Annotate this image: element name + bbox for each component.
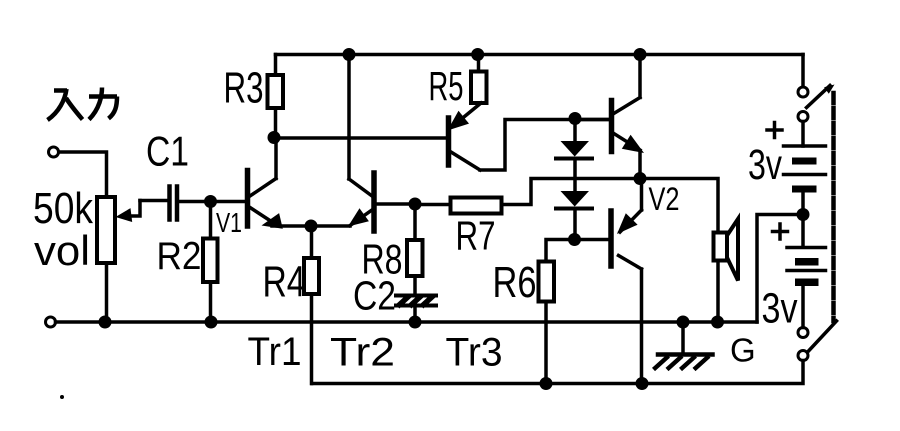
resistor R4 body	[304, 258, 319, 294]
wire C1 right to node	[177, 200, 211, 204]
wire R3 node to Tr4 base	[274, 136, 447, 140]
capacitor C2 top plate	[396, 294, 436, 298]
wire battery1 to mid node	[801, 193, 805, 215]
resistor R8 body	[407, 240, 423, 276]
svg-text:R5: R5	[429, 63, 464, 109]
resistor R5 stems	[477, 55, 481, 72]
resistor R7 body	[451, 198, 502, 214]
transistor Tr3 emitter arrow	[448, 111, 470, 131]
wire node down to R2	[209, 202, 213, 239]
svg-text:Tr1: Tr1	[248, 330, 302, 374]
node: C1 / R2 / Tr1 base	[204, 195, 217, 208]
node: mid bus / R2	[205, 316, 218, 329]
transistor Tr2 emitter arrow	[348, 208, 369, 226]
switch pole 1 blade	[807, 86, 831, 108]
transistor V1 emitter	[613, 133, 640, 179]
wire mid bus up right	[757, 215, 797, 323]
transistor Tr1 collector	[250, 138, 276, 197]
ground bar	[658, 352, 713, 357]
svg-text:R6: R6	[493, 258, 537, 307]
wire emitter node to Tr2	[311, 224, 350, 228]
svg-text:C2: C2	[353, 273, 396, 319]
wire R7 left	[421, 203, 451, 207]
ground stub	[681, 322, 685, 353]
label input 入力 (drawn strokes)	[48, 88, 118, 121]
node: diode string bottom / R6 / V2 base	[568, 233, 581, 246]
switch blade arrow	[824, 85, 834, 94]
plus sign top	[767, 123, 782, 138]
resistor R2 body	[203, 239, 218, 283]
svg-text:R4: R4	[263, 258, 306, 307]
speaker driver box	[714, 233, 728, 261]
svg-text:3v: 3v	[748, 141, 782, 189]
wire pot wiper	[127, 201, 140, 217]
wire bottom mid bus	[56, 320, 758, 324]
wire node to Tr1 base	[211, 200, 246, 204]
transistor V2 collector	[619, 256, 642, 384]
wire pot bottom	[105, 263, 109, 322]
capacitor C2 hatching	[398, 296, 434, 307]
switch gang dashed link	[831, 93, 836, 321]
svg-text:V1: V1	[216, 207, 242, 238]
diode D2 cathode bar	[556, 207, 592, 211]
svg-text:50k: 50k	[33, 184, 94, 233]
svg-text:R2: R2	[157, 235, 202, 278]
switch pole 1 circles	[798, 87, 808, 97]
wire battery2 to switch	[801, 286, 805, 328]
node: top bus / Tr2 collector	[343, 48, 356, 61]
svg-text:R7: R7	[456, 213, 496, 259]
node: common emitters / R4	[305, 220, 318, 233]
resistor R1 pot body 50k	[97, 197, 115, 263]
svg-text:G: G	[730, 332, 756, 369]
transistor Tr1 emitter arrow	[262, 213, 283, 229]
battery B1 plates	[784, 146, 826, 175]
diode D1 cathode bar	[556, 157, 592, 161]
svg-text:3v: 3v	[762, 285, 798, 333]
node: battery mid tap	[797, 208, 810, 221]
node: bottom-left terminal	[46, 317, 56, 327]
node: input terminal	[49, 147, 59, 157]
transistor V1 (upper output) base bar	[609, 101, 615, 152]
transistor Tr2 base wire	[376, 202, 415, 206]
node: mid bus / ground	[677, 316, 690, 329]
wire top bus	[276, 53, 804, 57]
wire node to R8	[413, 204, 417, 240]
transistor V2 emitter arrow	[617, 213, 638, 234]
transistor Tr3 emitter from R5	[459, 103, 481, 121]
resistor R5 body	[471, 72, 487, 104]
transistor Tr1 base bar	[245, 171, 251, 227]
transistor V2 (lower output) base bar	[608, 211, 614, 266]
node: V1 emitter / V2 emitter / speaker	[634, 172, 647, 185]
transistor V1 base wire	[578, 118, 609, 122]
capacitor C1 right plate	[175, 187, 180, 220]
resistor R4 stems	[310, 226, 314, 384]
svg-text:vol: vol	[34, 227, 90, 274]
transistor Tr2 emitter	[350, 210, 372, 226]
node: mid bus / C2	[409, 316, 422, 329]
wire C2 to bus	[413, 307, 417, 322]
wire R2 bottom	[209, 282, 213, 322]
capacitor C1 left plate	[167, 187, 172, 220]
transistor Tr2 base bar	[371, 173, 377, 231]
node: mid bus / speaker	[711, 316, 724, 329]
wire switch to battery 1	[801, 122, 805, 147]
plus sign bottom	[773, 224, 788, 239]
wire D1 to D2	[573, 159, 577, 192]
diode D1 anode wire	[573, 119, 577, 141]
wire right drop to switch	[801, 55, 805, 87]
transistor V2 emitter	[620, 179, 642, 233]
node: R3 / Tr1 collector / Tr3 base	[268, 131, 281, 144]
wire wiper corner to C1 left	[140, 199, 170, 203]
transistor Tr1 emitter	[250, 208, 311, 227]
wire R7 right jog	[502, 179, 719, 233]
node: Tr2 base / R7 / R8	[409, 198, 422, 211]
transistor Tr3 collector	[451, 120, 609, 171]
svg-text:C1: C1	[146, 128, 189, 175]
speaker cone	[727, 219, 738, 281]
wire mid node to battery 2	[801, 215, 805, 248]
node: top bus / V1 collector	[634, 48, 647, 61]
svg-text:Tr3: Tr3	[446, 331, 503, 375]
node: diode string top	[569, 112, 582, 125]
resistor R3 stems	[274, 55, 278, 138]
svg-text:R3: R3	[224, 64, 264, 113]
node: low bus / V2 collector	[636, 377, 649, 390]
wiper arrow	[116, 208, 133, 222]
transistor V2 base wire	[578, 238, 609, 242]
node: mid bus / pot	[99, 316, 112, 329]
transistor V1 emitter arrow	[622, 135, 644, 153]
stray dot	[60, 395, 64, 399]
diode D1 triangle	[561, 141, 590, 157]
wire D2 to node	[573, 209, 577, 240]
switch pole 2 circles	[798, 328, 808, 338]
capacitor C2 bottom plate	[396, 304, 436, 308]
ground hatches	[654, 356, 710, 370]
switch pole 2 blade	[809, 321, 837, 351]
wire R8 to C2	[413, 276, 417, 294]
transistor Tr3 base bar	[446, 118, 452, 165]
wire lowest bus	[312, 361, 803, 384]
wire input to pot top	[59, 152, 107, 197]
resistor R6 body	[539, 262, 555, 302]
node: top bus / R5	[471, 48, 484, 61]
resistor R3 body	[268, 75, 284, 108]
wire speaker bottom	[716, 261, 720, 323]
transistor V1 collector	[613, 55, 640, 115]
wire R6 bottom	[544, 302, 548, 384]
node: low bus / R6	[540, 377, 553, 390]
diode D2 triangle	[561, 191, 590, 207]
battery B2 plates	[787, 248, 826, 271]
svg-text:V2: V2	[649, 181, 680, 217]
wire R6 top	[546, 240, 575, 262]
transistor Tr2 collector	[349, 55, 372, 197]
svg-text:Tr2: Tr2	[330, 331, 395, 375]
